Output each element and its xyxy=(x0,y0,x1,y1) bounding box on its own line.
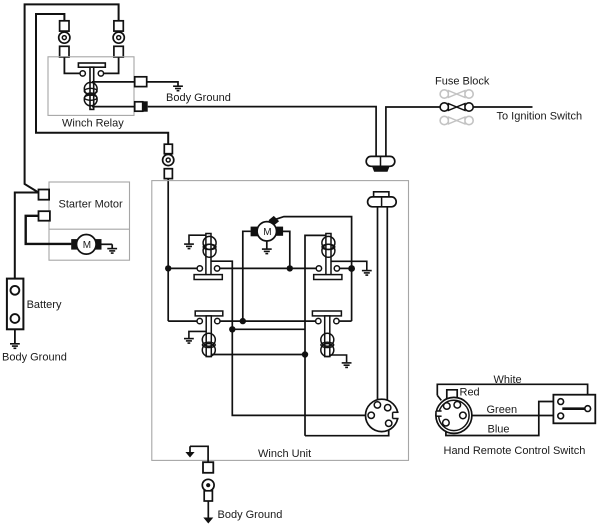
svg-text:To Ignition Switch: To Ignition Switch xyxy=(497,111,583,123)
starter motor divider xyxy=(49,228,130,230)
solenoid upper-right contact left xyxy=(316,266,321,271)
pin remote plug 3 xyxy=(460,412,467,419)
svg-text:M: M xyxy=(263,227,271,238)
solenoid lower-left armature xyxy=(195,311,223,357)
svg-text:Green: Green xyxy=(487,404,518,416)
connector left lead lower xyxy=(60,46,69,57)
label Blue xyxy=(488,424,510,436)
junction motor right / upper row xyxy=(287,265,293,271)
wire E-net to bottom pin xyxy=(305,427,389,436)
label Winch Unit xyxy=(258,448,311,460)
remote switch box xyxy=(553,395,595,424)
pin remote plug 4 xyxy=(443,419,450,426)
winch relay box xyxy=(48,57,134,116)
svg-text:Hand Remote Control Switch: Hand Remote Control Switch xyxy=(444,445,586,457)
connector winch socket notch xyxy=(393,412,399,418)
label Body Ground (battery) xyxy=(2,352,67,364)
connector winch relay terminal 2 xyxy=(135,101,148,111)
battery xyxy=(7,279,24,330)
remote switch lever xyxy=(562,407,584,410)
label Winch Relay xyxy=(62,117,124,129)
solenoid upper-left contact right xyxy=(214,266,219,271)
connector winch feed lower xyxy=(164,169,172,179)
ground lower-right solenoid xyxy=(342,363,352,368)
wire winch relay to winch unit branch xyxy=(148,107,376,157)
wire battery to body ground xyxy=(14,329,16,343)
ground arrow winch unit xyxy=(185,446,194,457)
connector left lead upper xyxy=(60,21,69,31)
svg-text:Body Ground: Body Ground xyxy=(166,92,231,104)
solenoid upper-right armature xyxy=(314,234,342,280)
svg-text:Blue: Blue xyxy=(488,424,510,436)
label White xyxy=(494,374,522,386)
solenoid lower-left contact right xyxy=(215,318,220,323)
junction E-net / lower-left coil xyxy=(302,351,308,357)
ground upper-left solenoid xyxy=(184,244,194,249)
svg-text:Body Ground: Body Ground xyxy=(2,352,67,364)
wire connector pin A xyxy=(377,207,379,402)
pin winch socket 4 xyxy=(386,420,392,426)
wire fuse to ignition switch xyxy=(473,106,532,108)
winch motor M2 xyxy=(257,222,276,241)
remote switch terminal common xyxy=(585,406,591,412)
label Body Ground (winch relay) xyxy=(166,92,231,104)
ground upper-right solenoid xyxy=(362,271,372,276)
wire winch motor left brush xyxy=(243,231,251,321)
starter motor brush right xyxy=(93,239,101,250)
wire winch motor field terminal xyxy=(276,217,352,269)
connector body ground lead xyxy=(203,462,213,473)
solenoid lower-right contact left xyxy=(316,318,321,323)
wire field net to lower-right contact xyxy=(351,269,353,322)
svg-text:Starter Motor: Starter Motor xyxy=(59,199,124,211)
solenoid upper-right contact right xyxy=(334,266,339,271)
svg-text:Winch Relay: Winch Relay xyxy=(62,117,124,129)
connector right lead upper xyxy=(114,21,123,31)
wire winch motor right brush xyxy=(283,231,290,268)
label Starter Motor xyxy=(59,199,124,211)
wire lower contact row xyxy=(168,320,351,322)
wire right lead to contact xyxy=(104,57,119,73)
winch relay armature T-bar xyxy=(78,63,105,67)
pin winch socket 2 xyxy=(385,405,391,411)
starter motor M1 xyxy=(77,235,97,255)
solenoid upper-left armature xyxy=(194,234,222,280)
winch motor brush left xyxy=(251,227,259,237)
wire to body ground arrow xyxy=(207,501,209,518)
solenoid lower-right armature xyxy=(312,311,341,357)
junction common / coil branch xyxy=(229,326,235,332)
connector body ground sleeve xyxy=(204,491,212,501)
wire battery feed to winch relay contact (right lead) xyxy=(25,4,119,192)
wire terminal 1 to body ground xyxy=(147,82,178,86)
ring terminal body ground xyxy=(202,479,214,491)
solenoid upper-left contact left xyxy=(197,266,202,271)
connector winch unit half xyxy=(368,192,397,207)
wire lower-left coil bottom to E-net xyxy=(211,354,305,356)
starter motor brush left xyxy=(71,239,79,250)
winch relay coil xyxy=(84,82,97,105)
svg-text:Body Ground: Body Ground xyxy=(218,509,283,521)
wire connector pin B xyxy=(386,207,388,405)
solenoid upper-right coil xyxy=(322,236,335,257)
connector winch round socket xyxy=(366,399,398,431)
svg-text:Winch Unit: Winch Unit xyxy=(258,448,311,460)
ground starter motor xyxy=(107,249,117,254)
wire upper-left coil to ground xyxy=(189,235,206,243)
wire branch to fuse block xyxy=(386,107,440,156)
battery terminal bottom xyxy=(11,314,20,323)
wire lower-right coil to ground xyxy=(330,355,347,362)
wire upper-left stem common xyxy=(211,261,368,415)
label Green xyxy=(487,404,518,416)
solenoid lower-left contact left xyxy=(197,318,202,323)
pin winch socket 1 xyxy=(374,402,380,408)
wire coil top to terminal xyxy=(92,81,135,83)
solenoid upper-left coil xyxy=(203,236,216,257)
wire coil bottom to terminal 2 xyxy=(92,106,135,108)
solenoid lower-right contact right xyxy=(334,318,339,323)
label Fuse Block xyxy=(435,76,490,88)
connector winch feed upper xyxy=(164,144,172,154)
ground arrow body ground xyxy=(203,518,213,524)
svg-text:White: White xyxy=(494,374,522,386)
ground lower-left solenoid xyxy=(184,339,194,344)
pin remote plug 1 xyxy=(444,403,451,410)
wire Blue xyxy=(446,402,558,436)
junction motor left / lower row xyxy=(240,318,246,324)
remote switch terminal lower xyxy=(558,413,564,419)
wire bus to lower row xyxy=(167,268,169,321)
wire Green xyxy=(466,415,558,417)
winch relay contact right xyxy=(98,71,103,76)
winch relay contact left xyxy=(80,71,85,76)
wire Red jumper xyxy=(447,390,457,403)
svg-text:Red: Red xyxy=(460,387,480,399)
wire winch unit to body ground xyxy=(190,446,208,462)
wire left lead to contact xyxy=(64,57,79,73)
label Battery xyxy=(27,299,62,311)
battery terminal top xyxy=(11,286,20,295)
ground body ground (winch relay) xyxy=(173,86,183,91)
wire upper contact row xyxy=(168,267,351,269)
pin remote plug 2 xyxy=(454,402,461,409)
pin winch socket 3 xyxy=(368,412,374,418)
ring terminal left lead xyxy=(59,32,70,43)
label To Ignition Switch xyxy=(497,111,583,123)
solenoid lower-left coil xyxy=(202,333,215,356)
connector right lead lower xyxy=(114,46,123,57)
wire winch relay output (left lead) to winch unit connector xyxy=(36,14,168,144)
winch unit box xyxy=(152,181,409,461)
fuse spare upper (gray) xyxy=(440,90,473,98)
wire upper-right stem to ground xyxy=(331,261,367,270)
svg-text:Battery: Battery xyxy=(27,299,62,311)
connector starter terminal 1 xyxy=(39,190,50,200)
ring terminal winch feed xyxy=(163,154,174,165)
winch motor field stud xyxy=(269,216,280,226)
wire lower-left coil to ground xyxy=(189,331,206,338)
ring terminal right lead xyxy=(113,32,124,43)
wire winch motor to ground xyxy=(266,241,268,249)
fuse spare lower (gray) xyxy=(440,116,473,124)
fuse main circuit xyxy=(440,103,473,111)
wire connector to winch unit bus xyxy=(167,179,169,269)
label Hand Remote Control Switch xyxy=(444,445,586,457)
remote switch terminal upper xyxy=(558,399,564,405)
svg-text:Fuse Block: Fuse Block xyxy=(435,76,490,88)
connector winch relay terminal 1 xyxy=(135,77,147,87)
label Red xyxy=(460,387,480,399)
wire starter terminal 2 to motor xyxy=(26,216,72,244)
solenoid lower-right coil xyxy=(321,333,334,356)
label Body Ground (winch unit) xyxy=(218,509,283,521)
ground battery body ground xyxy=(10,344,20,349)
junction field wire / upper row xyxy=(348,265,355,272)
svg-text:M: M xyxy=(83,240,91,251)
wire upper-right coil to E-net xyxy=(305,235,326,435)
ground winch motor xyxy=(262,249,272,254)
winch motor brush right xyxy=(276,227,283,236)
junction bus / upper row xyxy=(165,265,171,271)
starter motor box xyxy=(49,182,130,260)
wire battery to starter terminal 1 xyxy=(15,193,39,279)
wire White xyxy=(437,384,587,405)
connector remote round plug xyxy=(436,397,472,433)
wire coil branch to E-net xyxy=(232,328,305,330)
connector harness half xyxy=(366,156,395,171)
connector starter terminal 2 xyxy=(39,211,50,221)
wire motor to ground xyxy=(102,244,113,248)
connector remote plug notch xyxy=(436,411,442,416)
winch relay armature stem xyxy=(90,67,94,109)
